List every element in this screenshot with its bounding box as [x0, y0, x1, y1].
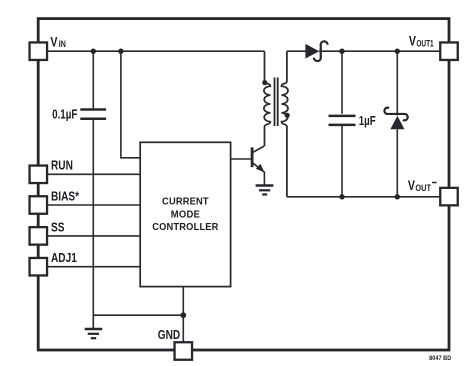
diode D1 curly cathode: [314, 41, 328, 61]
label SS: [51, 222, 65, 235]
transformer T1 primary winding: [264, 51, 271, 146]
wire zener upper: [396, 51, 398, 115]
svg-text:IN: IN: [59, 39, 66, 49]
pin square ADJ1: [30, 258, 48, 276]
transistor Q1 emitter: [253, 163, 265, 185]
junction VOUT- rail / 1uF: [339, 194, 344, 199]
wire secondary top to diode: [287, 50, 306, 52]
wire base drive: [231, 158, 251, 160]
zener D2 cathode bar with hooks: [384, 108, 407, 121]
junction VOUT- rail / zener: [395, 194, 400, 199]
svg-text:V: V: [50, 34, 58, 50]
pin square BIAS: [30, 196, 48, 214]
svg-text:BIAS*: BIAS*: [51, 191, 80, 204]
label VIN: [50, 34, 58, 50]
wire 1uF lower: [341, 126, 343, 197]
pin square GND: [175, 342, 193, 360]
label 0.1uF: [52, 108, 77, 121]
svg-text:OUT: OUT: [415, 184, 431, 194]
label ADJ1: [51, 252, 77, 265]
svg-text:RUN: RUN: [51, 160, 73, 173]
wire diode to VOUT1: [319, 50, 440, 52]
pin square SS: [30, 227, 48, 245]
label 8047 BD: [429, 355, 452, 362]
pin square VOUT1: [440, 42, 458, 60]
wire output bottom rail: [287, 196, 440, 198]
svg-text:8047 BD: 8047 BD: [429, 355, 452, 362]
wire controller to GND pin: [182, 287, 184, 342]
ground symbol at emitter: [256, 186, 274, 195]
zener D2 triangle: [390, 116, 404, 129]
label VOUT-: [408, 178, 416, 194]
capacitor C1 0.1uF plates: [80, 110, 106, 119]
wire BIAS: [47, 204, 140, 206]
junction VIN rail / 0.1uF: [91, 49, 96, 54]
transformer T1 secondary winding: [282, 51, 289, 197]
capacitor C2 1uF plates: [329, 116, 356, 125]
label 1uF: [359, 115, 376, 129]
junction VOUT1 rail / zener: [395, 49, 400, 54]
pin square RUN: [30, 166, 48, 184]
transistor Q1 emitter arrow: [256, 164, 265, 172]
wire RUN: [47, 173, 140, 175]
svg-text:SS: SS: [51, 222, 65, 235]
svg-text:GND: GND: [158, 329, 180, 342]
pin square VIN: [30, 42, 458, 359]
wire 0.1uF upper: [92, 51, 94, 108]
transistor Q1 base bar: [251, 147, 254, 167]
wire 1uF upper: [341, 51, 343, 114]
svg-text:1µF: 1µF: [359, 115, 376, 129]
svg-text:CURRENT: CURRENT: [162, 196, 209, 207]
transformer T1 core bars: [275, 78, 278, 127]
label BIAS*: [51, 191, 80, 204]
svg-text:MODE: MODE: [171, 209, 201, 220]
outer IC border: [38, 19, 449, 350]
controller block text: [152, 196, 218, 233]
label GND: [158, 329, 180, 342]
wire zener lower: [396, 129, 398, 197]
pin square VOUT-: [440, 188, 458, 206]
wire ADJ1: [47, 266, 140, 268]
wire SS: [47, 235, 140, 237]
wire VIN feed to controller: [121, 51, 140, 158]
svg-text:OUT1: OUT1: [416, 38, 434, 48]
transistor Q1 collector: [253, 146, 265, 152]
label VOUT1: [409, 33, 417, 49]
svg-text:CONTROLLER: CONTROLLER: [152, 222, 218, 233]
svg-text:V: V: [409, 33, 417, 49]
wire 0.1uF lower to ground rail: [92, 120, 94, 315]
controller block U1: [140, 142, 230, 286]
wire ground rail: [93, 314, 183, 316]
transformer phase dot primary: [262, 80, 267, 85]
wire VIN rail: [47, 50, 265, 52]
transformer phase dot secondary: [285, 113, 290, 118]
svg-text:ADJ1: ADJ1: [51, 252, 77, 265]
junction VOUT1 rail / 1uF: [339, 49, 344, 54]
ground symbol bottom left: [85, 315, 103, 338]
label RUN: [51, 160, 73, 173]
diode D1: [305, 44, 319, 59]
junction VIN rail / controller feed: [118, 49, 123, 54]
junction ground rail / GND pin: [180, 312, 186, 318]
svg-text:0.1µF: 0.1µF: [52, 108, 77, 121]
